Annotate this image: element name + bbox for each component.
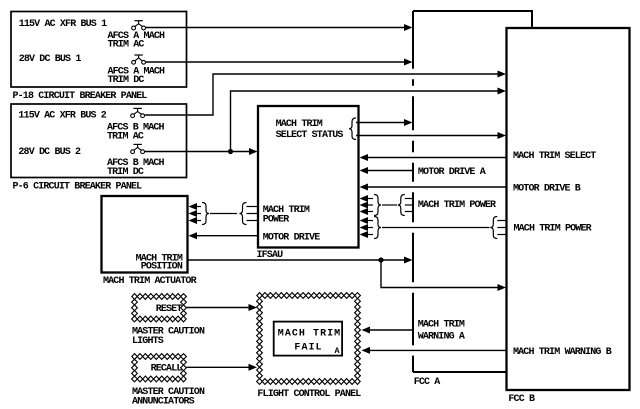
svg-text:P-18 CIRCUIT BREAKER PANEL: P-18 CIRCUIT BREAKER PANEL [13,91,148,102]
svg-text:115V AC XFR BUS 2: 115V AC XFR BUS 2 [18,111,106,122]
svg-text:MACH TRIM POWER: MACH TRIM POWER [418,200,496,211]
svg-text:SELECT STATUS: SELECT STATUS [276,130,344,141]
svg-text:RESET: RESET [156,304,183,315]
svg-text:TRIM DC: TRIM DC [108,75,145,86]
wire mach trim select status to FCC B [356,135,499,137]
MACH TRIM ACTUATOR box [102,196,188,273]
svg-text:RECALL: RECALL [151,364,183,375]
svg-text:MACH TRIM: MACH TRIM [418,319,465,330]
IFSAU box [258,106,359,248]
svg-text:TRIM DC: TRIM DC [107,167,144,178]
wire 28V DC bus 2 to junction [145,151,231,153]
svg-text:MACH TRIM SELECT: MACH TRIM SELECT [513,151,596,162]
circuit breaker AFCS B MACH TRIM AC [131,108,145,117]
svg-text:POSITION: POSITION [141,262,183,273]
mach trim power bundle from FCC B to IFSAU [367,220,374,222]
junction dot DC bus 2 [228,149,233,154]
svg-text:LIGHTS: LIGHTS [132,336,164,347]
flight control panel box (diamond border) [257,293,361,385]
wire mach trim position branch to FCC B [381,260,499,288]
mach trim power bundle from FCC A to IFSAU [367,198,374,200]
svg-text:FAIL: FAIL [294,342,322,353]
MACH TRIM FAIL annunciator box [274,322,342,356]
svg-text:115V AC XFR BUS 1: 115V AC XFR BUS 1 [19,19,107,30]
wire mach trim select status to FCC A [356,122,405,124]
wire reset to flight control panel [187,307,250,309]
brace for select status outputs [349,118,356,140]
svg-text:MACH TRIM WARNING B: MACH TRIM WARNING B [513,347,612,358]
wire motor drive B FCC B to IFSAU [367,186,507,188]
svg-text:MACH TRIM: MACH TRIM [276,119,323,130]
P-18 circuit breaker panel box [11,12,187,88]
wire mach trim warning B FCC B to flight control panel [369,349,506,351]
svg-text:MACH TRIM: MACH TRIM [278,328,341,339]
wire mach trim position to FCC A [189,259,406,261]
wire motor drive IFSAU to actuator [196,235,257,237]
FCC A left edge (broken at wire crossings) [412,11,414,372]
wire junction to IFSAU [231,151,251,153]
wire 115V AC bus 1 to FCC A [146,27,406,29]
junction dot mach trim position [378,257,383,262]
svg-text:FLIGHT CONTROL PANEL: FLIGHT CONTROL PANEL [257,389,361,400]
svg-text:FCC A: FCC A [414,377,441,388]
svg-text:A: A [334,346,340,356]
svg-text:WARNING A: WARNING A [418,331,465,342]
FCC A box [413,11,532,372]
circuit breaker AFCS A MACH TRIM DC [132,55,146,64]
wire motor drive A FCC A to IFSAU [367,170,413,172]
svg-text:ANNUNCIATORS: ANNUNCIATORS [132,397,195,408]
wire mach trim warning A FCC A to flight control panel [369,329,412,331]
FCC B box [507,28,630,390]
svg-text:TRIM AC: TRIM AC [107,132,144,143]
wire mach trim select FCC B to IFSAU [367,157,507,159]
master caution lights RESET box (diamond border) [132,294,187,322]
wire recall to flight control panel [187,366,250,368]
svg-text:MOTOR DRIVE B: MOTOR DRIVE B [513,184,581,195]
master caution annunciators RECALL box (diamond border) [132,354,187,382]
wire 28V DC bus 1 to FCC A [146,61,406,63]
wire junction up to FCC B [231,91,499,152]
svg-text:TRIM AC: TRIM AC [108,40,145,51]
svg-text:28V DC BUS 1: 28V DC BUS 1 [19,54,82,65]
svg-text:FCC B: FCC B [508,394,535,405]
P-6 circuit breaker panel box [11,104,187,178]
svg-text:MOTOR DRIVE A: MOTOR DRIVE A [418,167,486,178]
svg-text:MACH TRIM POWER: MACH TRIM POWER [514,223,592,234]
svg-text:P-6 CIRCUIT BREAKER PANEL: P-6 CIRCUIT BREAKER PANEL [13,182,143,193]
circuit breaker AFCS B MACH TRIM DC [131,144,145,153]
svg-text:MACH TRIM ACTUATOR: MACH TRIM ACTUATOR [103,276,197,287]
svg-text:POWER: POWER [263,214,290,225]
svg-text:MOTOR DRIVE: MOTOR DRIVE [263,232,321,243]
wire 115V AC bus 2 to FCC B [145,74,499,115]
svg-text:28V DC BUS 2: 28V DC BUS 2 [18,147,81,158]
mach trim power bundle from IFSAU to actuator [196,206,201,208]
circuit breaker AFCS A MACH TRIM AC [132,21,146,30]
